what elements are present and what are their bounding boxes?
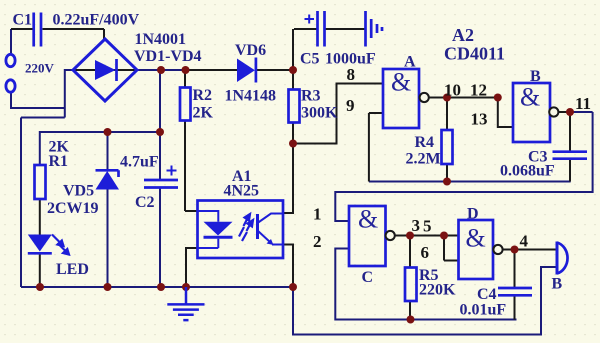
svg-text:VD6: VD6 — [235, 42, 266, 59]
svg-text:&: & — [358, 205, 378, 234]
svg-text:1N4148: 1N4148 — [225, 88, 277, 105]
svg-text:C5: C5 — [300, 51, 320, 68]
svg-text:R2: R2 — [193, 87, 213, 104]
svg-text:12: 12 — [470, 81, 487, 100]
svg-text:B: B — [552, 276, 563, 293]
svg-text:R1: R1 — [49, 153, 69, 170]
svg-text:2.2M: 2.2M — [406, 151, 441, 168]
svg-text:CD4011: CD4011 — [444, 44, 505, 64]
svg-text:C2: C2 — [135, 194, 155, 211]
svg-text:&: & — [466, 224, 486, 253]
svg-text:0.01uF: 0.01uF — [460, 302, 507, 319]
svg-text:5: 5 — [423, 217, 432, 236]
svg-text:4N25: 4N25 — [224, 183, 260, 200]
svg-text:2: 2 — [313, 232, 322, 251]
svg-text:A2: A2 — [452, 25, 474, 45]
svg-text:LED: LED — [56, 261, 89, 278]
svg-text:0.22uF/400V: 0.22uF/400V — [53, 12, 140, 29]
svg-text:1: 1 — [313, 205, 322, 224]
svg-text:13: 13 — [471, 110, 488, 129]
svg-text:C1: C1 — [13, 12, 33, 29]
svg-text:1N4001: 1N4001 — [135, 31, 187, 48]
svg-text:220K: 220K — [419, 282, 456, 299]
svg-text:VD1-VD4: VD1-VD4 — [134, 48, 202, 65]
svg-text:300K: 300K — [301, 105, 338, 122]
svg-text:D: D — [467, 206, 479, 223]
svg-text:&: & — [391, 68, 411, 97]
svg-text:2CW19: 2CW19 — [47, 200, 99, 217]
svg-text:10: 10 — [444, 81, 461, 100]
svg-text:6: 6 — [421, 243, 430, 262]
svg-text:4: 4 — [520, 232, 529, 251]
svg-text:R3: R3 — [301, 88, 321, 105]
svg-text:4.7uF: 4.7uF — [120, 154, 159, 171]
svg-text:220V: 220V — [25, 61, 55, 76]
svg-text:2K: 2K — [193, 105, 214, 122]
svg-text:VD5: VD5 — [63, 183, 94, 200]
svg-text:C4: C4 — [477, 286, 497, 303]
svg-text:9: 9 — [346, 96, 355, 115]
svg-text:8: 8 — [347, 65, 356, 84]
svg-text:&: & — [520, 83, 540, 112]
svg-text:0.068uF: 0.068uF — [500, 163, 555, 180]
svg-text:C: C — [362, 269, 374, 286]
svg-text:3: 3 — [412, 216, 421, 235]
svg-text:11: 11 — [575, 94, 591, 113]
svg-text:R4: R4 — [415, 134, 435, 151]
